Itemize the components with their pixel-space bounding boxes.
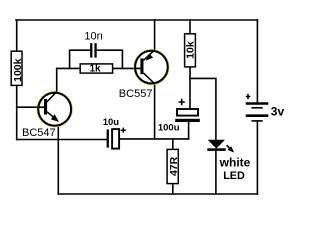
capacitor 10n — [84, 30, 102, 57]
wire BC557 collector vertical — [154, 84, 156, 139]
resistor 100k — [11, 51, 24, 85]
battery BT1 3v — [246, 94, 285, 121]
wire 1k left — [57, 67, 80, 69]
wire battery bottom lead — [256, 101, 258, 104]
wire 10k bottom to 100u top — [189, 67, 191, 108]
wire bottom rail — [58, 193, 257, 195]
wire BC547 emitter vertical — [57, 126, 59, 194]
svg-text:10k: 10k — [185, 41, 197, 59]
wire branch to LED anode — [190, 78, 216, 140]
transistor Q1 BC547 — [22, 91, 72, 139]
capacitor 100u electrolytic — [158, 99, 200, 134]
wire BC557 emitter vertical — [154, 20, 156, 50]
svg-text:white: white — [219, 156, 251, 170]
resistor 47R — [167, 149, 180, 183]
wire BC547 collector vertical — [56, 68, 58, 91]
wire LED cathode vertical — [215, 151, 217, 194]
svg-text:BC547: BC547 — [22, 127, 56, 139]
wire right rail lower — [256, 121, 258, 194]
wire 100k bottom lead down-left column — [16, 85, 18, 139]
svg-text:BC557: BC557 — [119, 88, 153, 100]
capacitor 10u electrolytic — [103, 117, 126, 149]
resistor 10k — [185, 34, 197, 67]
wire 1k right to BC557 base — [113, 67, 141, 69]
svg-text:10n: 10n — [84, 30, 102, 42]
wire BC547 base — [17, 106, 45, 108]
svg-text:1k: 1k — [89, 64, 101, 75]
transistor Q2 BC557 — [119, 50, 169, 100]
svg-text:LED: LED — [223, 170, 245, 182]
wire right rail upper — [256, 20, 258, 102]
wire top rail — [16, 19, 257, 21]
svg-text:100k: 100k — [12, 58, 24, 82]
wire lower horizontal to 10u — [17, 139, 107, 141]
wire 47R bottom lead — [172, 184, 174, 194]
wire 10n right bracket — [97, 50, 123, 68]
svg-text:47R: 47R — [168, 156, 180, 176]
svg-text:3v: 3v — [271, 104, 285, 118]
wire 47R top lead — [172, 139, 174, 150]
wire 10k top lead — [189, 20, 191, 34]
wire 10n left bracket — [70, 50, 91, 68]
wire left rail — [16, 20, 18, 51]
svg-text:10u: 10u — [103, 117, 120, 128]
wire 100u bottom lead — [188, 122, 190, 139]
wire middle horizontal — [120, 138, 189, 140]
resistor 1k — [80, 64, 112, 75]
LED D1 white — [207, 140, 250, 183]
svg-text:100u: 100u — [158, 122, 180, 133]
